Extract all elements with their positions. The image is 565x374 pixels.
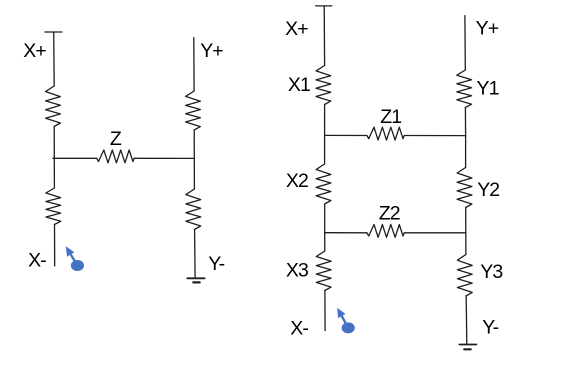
resistor Y1 (457, 70, 472, 108)
wire (464, 108, 466, 136)
svg-text:Y-: Y- (208, 253, 224, 275)
svg-text:X-: X- (28, 249, 46, 271)
wire (324, 204, 326, 233)
cursor pointer (right circuit) (337, 308, 355, 334)
node (X2/X3 tap) (324, 233, 326, 251)
wire (464, 16, 466, 70)
node (Y2/Y3 tap) (465, 233, 467, 255)
resistor lower X (left circuit) (46, 188, 61, 225)
svg-text:X+: X+ (23, 40, 46, 62)
wire (53, 157, 97, 159)
wire (193, 38, 195, 91)
wire (134, 157, 194, 159)
svg-text:Z1: Z1 (380, 106, 401, 128)
resistor Z2 (367, 225, 404, 238)
resistor Y2 (457, 168, 472, 208)
wire (324, 105, 326, 136)
svg-text:Y3: Y3 (480, 261, 502, 283)
resistor upper X (left circuit) (46, 86, 61, 127)
svg-text:Y+: Y+ (200, 40, 223, 62)
node (X1/X2 tap) (324, 135, 326, 164)
svg-text:Y-: Y- (482, 316, 498, 338)
ground (left circuit) (187, 277, 204, 279)
node (Y1/Y2 tap) (465, 136, 467, 168)
node (X tap, left circuit) (53, 158, 55, 188)
resistor upper Y (left circuit) (186, 91, 201, 130)
wire Z2 left (325, 232, 367, 234)
wire Z1 right (404, 135, 465, 137)
wire (53, 32, 56, 86)
svg-text:Y1: Y1 (477, 78, 499, 100)
wire (194, 230, 197, 279)
wire (465, 296, 468, 345)
cursor pointer (left circuit) (66, 246, 84, 271)
resistor Z1 (367, 127, 404, 140)
resistor X3 (316, 251, 331, 291)
svg-text:X+: X+ (285, 18, 308, 40)
terminal X+ (right circuit) (316, 5, 332, 7)
svg-text:Z2: Z2 (379, 203, 400, 225)
resistor Z (97, 150, 135, 163)
svg-text:Y+: Y+ (476, 18, 499, 40)
svg-text:X3: X3 (286, 259, 308, 281)
wire (53, 127, 55, 159)
ground (right circuit) (459, 344, 476, 346)
wire (465, 208, 467, 233)
resistor X1 (316, 66, 331, 105)
svg-text:X-: X- (290, 318, 308, 340)
resistor Y3 (457, 255, 472, 297)
wire (323, 6, 325, 66)
resistor X2 (316, 164, 331, 204)
wire Z2 right (404, 232, 466, 234)
svg-text:X2: X2 (286, 170, 308, 192)
svg-text:X1: X1 (288, 74, 310, 96)
svg-text:Z: Z (110, 128, 122, 150)
svg-text:Y2: Y2 (477, 179, 499, 201)
wire (54, 225, 56, 267)
wire (324, 291, 326, 331)
wire (193, 130, 195, 158)
node (Y tap, left circuit) (193, 158, 195, 189)
terminal X+ (left circuit) (45, 31, 62, 33)
resistor lower Y (left circuit) (186, 189, 201, 230)
wire Z1 left (325, 134, 367, 136)
